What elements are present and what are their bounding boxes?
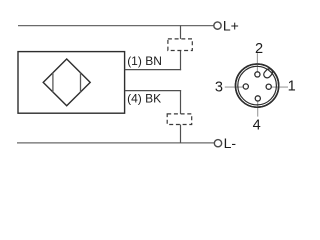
wire BK vertical upper (BK wire to load): [180, 90, 182, 114]
pin 3 (left): [243, 84, 248, 89]
load (dashed) upper: [168, 39, 192, 51]
svg-text:2: 2: [255, 41, 263, 57]
svg-text:3: 3: [215, 79, 223, 95]
svg-text:(4) BK: (4) BK: [127, 92, 161, 106]
connector outer circle restroke: [236, 64, 279, 107]
terminal L-: [214, 140, 221, 147]
terminal L+: [214, 22, 221, 29]
sensor diamond symbol: [43, 59, 90, 106]
wire BK horizontal: [125, 90, 181, 92]
pin 4 (bottom): [255, 96, 260, 101]
wire BN horizontal: [125, 69, 181, 71]
leader pin 1: [271, 86, 288, 88]
sensor box U1: [18, 52, 125, 114]
svg-text:1: 1: [288, 78, 296, 94]
wire BK vertical lower (load to rail): [180, 125, 182, 143]
wire L+ rail: [18, 25, 214, 27]
load (dashed) lower: [167, 114, 192, 125]
leader pin 4: [257, 101, 259, 117]
svg-text:(1) BN: (1) BN: [127, 54, 162, 68]
wire L- rail: [17, 142, 214, 144]
wire BN vertical lower (load to BN wire): [180, 51, 182, 71]
sensor symbol right chord: [80, 73, 82, 93]
connector inner circle: [238, 66, 277, 105]
pin 1 (right): [266, 84, 271, 89]
wire BN vertical upper (rail to load): [180, 26, 182, 39]
svg-text:4: 4: [253, 117, 261, 133]
leader pin 2: [256, 53, 258, 72]
connector keyway notch: [264, 69, 273, 78]
svg-text:L-: L-: [224, 135, 237, 151]
connector outer circle: [236, 64, 279, 107]
leader pin 3: [225, 86, 244, 88]
svg-text:L+: L+: [223, 18, 239, 34]
sensor symbol left chord: [52, 73, 54, 93]
pin 2 (top): [255, 72, 260, 77]
